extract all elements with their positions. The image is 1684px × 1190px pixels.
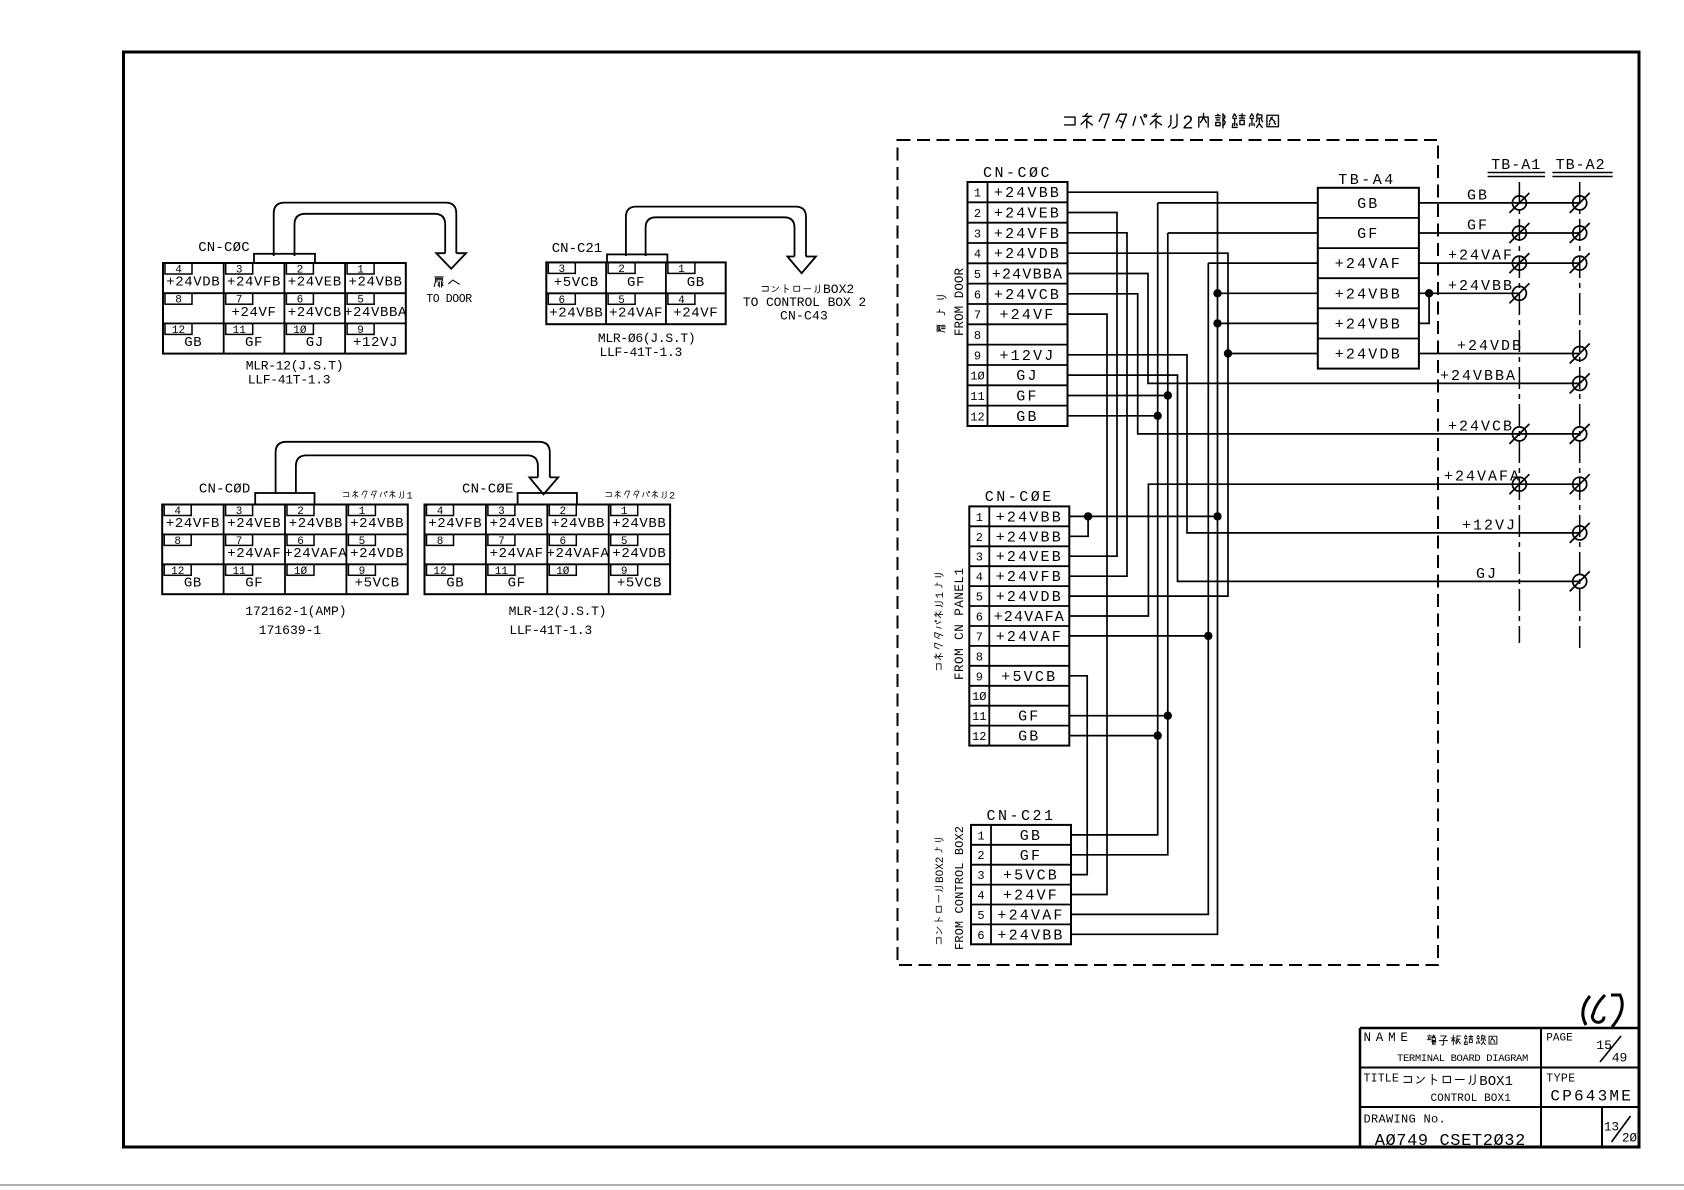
label to-door (Japanese) [434,277,459,287]
svg-text:+24VBB: +24VBB [996,529,1063,546]
svg-text:1Ø: 1Ø [972,690,986,704]
svg-text:GB: GB [446,576,464,592]
connector CN-C0C pinout table [163,263,407,354]
svg-text:GJ: GJ [1016,368,1038,385]
svg-text:1: 1 [678,264,685,276]
svg-text:GJ: GJ [1476,566,1498,583]
wire net +24VFB (CN-C0C.3 to CN-C0E.4) [1068,233,1128,576]
wire net GB (CN-C0C.12 / CN-C0E.12 / CN-C21.1 / TB-A4.1 / TB-A1 TB-A2) [1068,203,1580,835]
svg-text:+24VAFA: +24VAFA [1444,469,1521,486]
svg-text:DRAWING No.: DRAWING No. [1364,1113,1447,1127]
svg-text:CN-CØC: CN-CØC [198,240,250,256]
svg-text:GB: GB [1020,828,1042,845]
svg-text:+5VCB: +5VCB [1003,868,1059,885]
svg-text:+24VAF: +24VAF [490,546,544,562]
svg-text:GF: GF [1018,709,1040,726]
junction dots GB net [1154,412,1162,420]
svg-text:2Ø: 2Ø [1622,1132,1638,1146]
handwritten mark (6) [1583,995,1622,1027]
svg-text:172162-1(AMP): 172162-1(AMP) [245,604,346,619]
svg-text:5: 5 [977,909,984,923]
svg-text:12: 12 [433,566,446,578]
svg-text:+5VCB: +5VCB [554,275,599,291]
svg-text:GF: GF [245,335,263,351]
svg-text:+24VCB: +24VCB [288,305,342,321]
svg-text:1Ø: 1Ø [556,566,570,578]
svg-text:LLF-41T-1.3: LLF-41T-1.3 [248,373,331,388]
svg-text:13: 13 [1604,1121,1619,1135]
svg-text:+24VAF: +24VAF [227,546,281,562]
svg-text:+24VBB: +24VBB [997,927,1064,944]
svg-text:TB-A1: TB-A1 [1491,157,1541,174]
svg-text:LLF-41T-1.3: LLF-41T-1.3 [509,623,592,638]
side label from-door (Japanese, rotated) [937,296,946,333]
label connector-panel-2 (Japanese) [606,491,675,503]
dashed boundary box of connector panel 2 [898,140,1439,965]
svg-text:1: 1 [407,492,413,503]
wire net +5VCB (CN-C0E.9 to CN-C21.3) [1069,676,1087,875]
svg-text:2: 2 [977,849,984,863]
cable arrow CN-C0C to door (inner line) [295,214,446,256]
connector CN-C0E pinout table [425,505,671,595]
svg-text:+12VJ: +12VJ [353,335,398,351]
svg-text:+24VBB: +24VBB [348,275,402,291]
terminal circle TB-A1 +24VBB [1512,286,1526,300]
svg-text:CP643ME: CP643ME [1550,1088,1633,1106]
svg-text:8: 8 [175,295,182,307]
junction dot +24VAF net [1204,632,1212,640]
svg-text:+24VBB: +24VBB [1335,286,1402,303]
svg-text:GB: GB [184,335,202,351]
wire net +12VJ (CN-C0C.9 to TB-A2) [1068,355,1580,533]
connector CN-C0C (panel internal) table [968,182,1068,426]
svg-text:+24VF: +24VF [231,305,276,321]
svg-text:1: 1 [935,592,947,599]
svg-text:1: 1 [976,511,983,525]
svg-text:12: 12 [970,410,984,424]
svg-text:FROM DOOR: FROM DOOR [953,268,967,336]
svg-text:+24VBB: +24VBB [1448,278,1514,295]
svg-text:+24VDB: +24VDB [994,246,1061,263]
cable arrow CN-C21 to control box 2 (outer line) [626,207,806,257]
svg-text:+24VCB: +24VCB [994,287,1061,304]
wire net +24VAFA (CN-C0E.6 to TB-A1 TB-A2) [1069,484,1579,616]
svg-text:+24VEB: +24VEB [288,275,342,291]
svg-text:GJ: GJ [306,335,324,351]
terminal circle +12VJ [1573,526,1587,540]
svg-text:+24VF: +24VF [1003,888,1059,905]
terminal circles GB [1512,196,1526,210]
wire net GJ (CN-C0C.10 to TB-A2) [1068,375,1580,581]
svg-text:TERMINAL BOARD DIAGRAM: TERMINAL BOARD DIAGRAM [1397,1053,1528,1065]
svg-text:TB-A2: TB-A2 [1556,157,1606,174]
svg-text:BOX1: BOX1 [1479,1074,1513,1090]
terminal circles +24VAF [1512,256,1526,270]
svg-text:2: 2 [669,492,675,503]
svg-text:+24VDB: +24VDB [996,589,1063,606]
svg-text:49: 49 [1612,1051,1628,1066]
svg-text:+24VBB: +24VBB [350,516,404,532]
svg-text:8: 8 [174,536,181,548]
svg-text:1Ø: 1Ø [970,370,984,384]
svg-text:7: 7 [974,309,981,323]
svg-text:+24VBB: +24VBB [994,185,1061,202]
terminal strip TB-A2 axis line [1579,182,1581,648]
svg-text:+24VAF: +24VAF [1335,256,1402,273]
svg-text:3: 3 [976,551,983,565]
side label from control box 2 (Japanese, rotated) [935,838,948,944]
svg-text:NAME: NAME [1364,1031,1413,1045]
svg-text:171639-1: 171639-1 [259,623,322,638]
svg-text:+24VF: +24VF [999,307,1055,324]
svg-text:GF: GF [245,576,263,592]
svg-text:CN-C21: CN-C21 [552,241,602,257]
junction dots GF net [1164,391,1172,399]
side label from CN panel 1 (Japanese, rotated) [934,574,947,670]
svg-text:+24VBB: +24VBB [996,509,1063,526]
svg-text:+5VCB: +5VCB [617,576,662,592]
svg-text:CN-C43: CN-C43 [780,309,828,324]
svg-text:4: 4 [976,571,983,585]
wire net GF (CN-C0C.11 / CN-C0E.11 / CN-C21.2 / TB-A4.2 / TB-A1 TB-A2) [1068,233,1580,855]
svg-text:CN-CØD: CN-CØD [199,482,251,498]
connector CN-C0D pinout table [162,505,408,595]
svg-text:GF: GF [1357,226,1379,243]
terminal circles GF [1512,226,1526,240]
svg-text:+24VDB: +24VDB [350,546,404,562]
terminal circle +24VBBA [1573,376,1587,390]
svg-text:TITLE: TITLE [1364,1073,1400,1086]
svg-text:+24VFB: +24VFB [996,569,1063,586]
cable arrow CN-C0C arrowhead [436,253,466,269]
svg-text:3: 3 [974,227,981,241]
svg-text:+24VDB: +24VDB [166,275,220,291]
svg-text:GF: GF [1016,389,1038,406]
title block frame [1360,1028,1639,1147]
svg-text:2: 2 [618,264,625,276]
svg-text:BOX2: BOX2 [935,857,947,883]
svg-text:GB: GB [1467,187,1489,204]
svg-text:1Ø: 1Ø [294,566,308,578]
cable arrow CN-C0C to door (outer line) [274,203,457,256]
svg-text:12: 12 [172,325,185,337]
svg-text:+24VAF: +24VAF [996,629,1063,646]
svg-text:LLF-41T-1.3: LLF-41T-1.3 [600,345,683,360]
svg-text:9: 9 [974,349,981,363]
svg-text:+24VF: +24VF [673,306,718,322]
svg-text:GF: GF [627,275,645,291]
svg-text:FROM CONTROL BOX2: FROM CONTROL BOX2 [953,826,967,950]
svg-text:1: 1 [977,829,984,843]
connector CN-C21 (panel internal) table [971,825,1071,945]
svg-text:7: 7 [976,630,983,644]
svg-text:MLR-12(J.S.T): MLR-12(J.S.T) [509,604,607,619]
svg-text:4: 4 [977,889,984,903]
wire net +24VEB (CN-C0C.2 to CN-C0E.3) [1068,213,1118,557]
svg-text:+24VBB: +24VBB [612,516,666,532]
svg-text:GF: GF [508,576,526,592]
svg-text:11: 11 [970,390,984,404]
svg-text:GB: GB [184,576,202,592]
svg-text:+24VFB: +24VFB [166,516,220,532]
svg-text:TO DOOR: TO DOOR [426,293,472,306]
svg-text:+24VEB: +24VEB [994,206,1061,223]
svg-text:CONTROL BOX1: CONTROL BOX1 [1430,1093,1511,1105]
svg-text:2: 2 [1182,113,1193,135]
terminal block TB-A4 table [1318,188,1419,369]
svg-text:MLR-Ø6(J.S.T): MLR-Ø6(J.S.T) [598,331,696,346]
svg-text:6: 6 [977,929,984,943]
svg-text:+24VEB: +24VEB [996,549,1063,566]
svg-text:11: 11 [232,566,246,578]
svg-text:+5VCB: +5VCB [355,576,400,592]
svg-text:+24VEB: +24VEB [227,516,281,532]
svg-text:+24VBB: +24VBB [549,306,603,322]
svg-text:+24VEB: +24VEB [490,516,544,532]
cable arrow CN-C0D arrowhead [529,477,558,494]
svg-text:+24VBBA: +24VBBA [344,305,407,321]
wire net +24VAF (CN-C0E.7 / CN-C21.5 / TB-A4.3 / TB-A1 TB-A2) [1069,263,1579,914]
svg-text:6: 6 [976,611,983,625]
svg-text:5: 5 [974,268,981,282]
svg-text:3: 3 [977,869,984,883]
wire net +24VBBA (CN-C0C.5 to TB-A2) [1068,274,1580,384]
svg-text:+24VFB: +24VFB [227,275,281,291]
scanner edge artifact line [0,1184,1684,1186]
junction dots +24VBB net [1213,289,1221,297]
CN-C0C connector latch [254,254,315,263]
svg-text:CN-CØC: CN-CØC [983,165,1052,182]
svg-text:9: 9 [976,670,983,684]
svg-text:+24VFB: +24VFB [428,516,482,532]
title block title (Japanese): control box 1 [1404,1074,1513,1090]
CN-C21 connector latch [607,254,667,262]
svg-text:CN-CØE: CN-CØE [985,489,1054,506]
svg-text:+24VAFA: +24VAFA [546,546,609,562]
svg-text:8: 8 [974,329,981,343]
terminal circles +24VCB [1512,427,1526,441]
wire net +24VF (CN-C0C.7 to CN-C21.4) [1068,314,1108,894]
svg-text:CN-C21: CN-C21 [986,808,1055,825]
svg-text:+24VFB: +24VFB [994,226,1061,243]
wire net +24VDB (CN-C0C.4 / CN-C0E.5 / TB-A4.6 / TB-A2) [1068,253,1580,596]
svg-text:+12VJ: +12VJ [1462,517,1517,534]
svg-text:GB: GB [687,275,705,291]
svg-text:2: 2 [976,531,983,545]
svg-text:GB: GB [1016,409,1038,426]
svg-text:MLR-12(J.S.T): MLR-12(J.S.T) [246,359,344,374]
svg-text:+24VDB: +24VDB [1335,347,1402,364]
svg-text:+24VAF: +24VAF [609,306,663,322]
connector CN-C21 pinout table [546,262,725,324]
cable arrow CN-C0D to CN-C0E (outer line) [276,442,550,493]
title connector panel 2 internal wiring diagram (Japanese) [1065,113,1279,135]
svg-text:+24VAF: +24VAF [997,908,1064,925]
CN-C0E connector latch [518,493,577,505]
svg-text:8: 8 [437,536,444,548]
svg-text:TB-A4: TB-A4 [1338,172,1396,189]
svg-text:8: 8 [976,650,983,664]
label control-box-2 (Japanese) [762,282,854,297]
svg-text:6: 6 [974,288,981,302]
svg-text:AØ749 CSET2Ø32: AØ749 CSET2Ø32 [1375,1132,1526,1151]
svg-text:11: 11 [495,566,509,578]
svg-text:GF: GF [1020,848,1042,865]
svg-text:FROM CN PANEL1: FROM CN PANEL1 [953,568,967,680]
svg-text:+24VBBA: +24VBBA [992,267,1063,284]
svg-text:+24VDB: +24VDB [612,546,666,562]
CN-C0D connector latch [255,493,314,505]
svg-text:12: 12 [972,730,986,744]
svg-text:+24VBB: +24VBB [551,516,605,532]
junction dot +24VDB net [1224,349,1232,357]
cable arrow CN-C21 (inner line) [646,217,795,256]
svg-text:PAGE: PAGE [1546,1033,1573,1045]
svg-text:GB: GB [1357,196,1379,213]
svg-text:1: 1 [974,187,981,201]
svg-text:+24VAFA: +24VAFA [994,609,1065,626]
label connector-panel-1 (Japanese) [343,491,412,503]
svg-text:TYPE: TYPE [1546,1073,1575,1086]
connector CN-C0E (panel internal) table [969,506,1069,745]
svg-text:GF: GF [1467,218,1489,235]
cable arrow CN-C21 arrowhead [787,257,816,274]
svg-text:CN-CØE: CN-CØE [462,482,514,498]
wire net +24VCB (CN-C0C.6 to TB-A1 TB-A2) [1068,294,1580,434]
svg-text:5: 5 [976,591,983,605]
svg-text:+24VDB: +24VDB [1457,338,1523,355]
svg-text:+24VBBA: +24VBBA [1440,368,1517,385]
svg-text:12: 12 [171,566,184,578]
svg-text:GB: GB [1018,729,1040,746]
svg-text:11: 11 [972,710,986,724]
terminal circle GJ [1573,574,1587,588]
cable arrow CN-C0D to CN-C0E (inner line) [296,455,538,493]
svg-text:2: 2 [974,207,981,221]
svg-text:+24VBB: +24VBB [1335,316,1402,333]
terminal circle TB-A2 +24VDB [1573,347,1587,361]
svg-text:+5VCB: +5VCB [1001,669,1057,686]
svg-text:4: 4 [974,248,981,262]
terminal strip TB-A1 axis line [1518,182,1520,643]
terminal circles +24VAFA [1512,477,1526,491]
svg-text:+24VAFA: +24VAFA [284,546,347,562]
wire net +24VBB (CN-C0C.1 / CN-C0E.1,2 / CN-C21.6 / TB-A4.4,5 / TB-A1) [1068,192,1520,934]
title block name (Japanese): terminal board wiring diagram [1427,1035,1497,1045]
svg-text:+24VCB: +24VCB [1448,418,1514,435]
svg-text:+24VBB: +24VBB [289,516,343,532]
svg-text:+12VJ: +12VJ [999,348,1055,365]
svg-text:+24VAF: +24VAF [1448,248,1514,265]
